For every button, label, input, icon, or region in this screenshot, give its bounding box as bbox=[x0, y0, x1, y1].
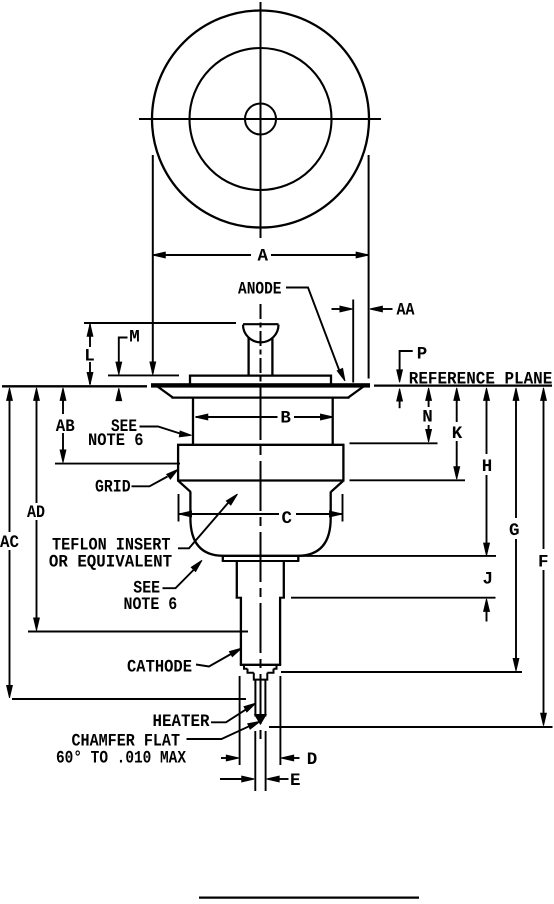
extension line at heater tip (F) bbox=[269, 726, 553, 728]
svg-text:D: D bbox=[307, 750, 318, 770]
top view outer flange circle bbox=[152, 11, 369, 228]
wide cylinder bottom shoulder right bbox=[279, 597, 285, 599]
dimension D left arrow bbox=[221, 757, 228, 759]
heater chamfer tip bbox=[255, 715, 267, 725]
footer base line bbox=[199, 896, 419, 898]
dimension G upper arrow bbox=[513, 388, 519, 401]
dimension C extension line left bbox=[178, 494, 180, 522]
svg-text:K: K bbox=[452, 424, 463, 444]
svg-text:NOTE 6: NOTE 6 bbox=[88, 431, 144, 451]
cathode leader bbox=[196, 654, 231, 667]
svg-text:HEATER: HEATER bbox=[153, 712, 210, 732]
svg-text:N: N bbox=[422, 408, 433, 428]
dimension K lower arrow bbox=[456, 441, 458, 468]
extension line at ledge (H/J upper) bbox=[299, 555, 496, 557]
svg-text:REFERENCE PLANE: REFERENCE PLANE bbox=[409, 369, 553, 389]
svg-text:CATHODE: CATHODE bbox=[127, 658, 192, 678]
dimension AC bbox=[7, 388, 13, 401]
ledge below dome right step bbox=[297, 556, 299, 561]
svg-text:H: H bbox=[482, 457, 493, 477]
wide cylinder bottom shoulder left bbox=[236, 597, 242, 599]
see note 6 upper leader bbox=[140, 427, 181, 434]
grid leader bbox=[132, 477, 168, 487]
dimension H lower arrow bbox=[486, 475, 488, 545]
reference plane line left segment bbox=[2, 385, 147, 387]
dimension P lower arrow bbox=[397, 389, 403, 402]
dimension P bracket bbox=[400, 351, 413, 370]
grid ring left wall bbox=[177, 445, 179, 481]
flange top bar bbox=[151, 383, 370, 387]
dimension AA left extension line bbox=[352, 300, 354, 383]
dimension D extension line right bbox=[279, 676, 281, 765]
svg-text:AC: AC bbox=[0, 533, 19, 553]
anode stem bbox=[247, 338, 249, 376]
side view centerline lower part bbox=[260, 390, 262, 740]
dimension E left arrow bbox=[220, 778, 243, 780]
top view vertical centerline bbox=[260, 2, 262, 238]
svg-text:M: M bbox=[129, 328, 140, 348]
heater wire left bbox=[254, 680, 256, 717]
grid ring left taper bbox=[179, 481, 191, 492]
dimension A right extension line bbox=[368, 155, 370, 379]
dimension D right arrow bbox=[281, 755, 294, 761]
reference plane line right segment bbox=[374, 384, 552, 386]
dimension A left extension line bbox=[152, 155, 154, 373]
cathode tip step 1 bbox=[243, 666, 278, 669]
AB extension line bbox=[55, 463, 180, 465]
top view center hole circle bbox=[245, 104, 276, 135]
dimension F lower arrow bbox=[543, 570, 545, 715]
svg-text:J: J bbox=[482, 569, 493, 589]
dimension E right arrow bbox=[267, 776, 280, 782]
grid ring bottom line bbox=[177, 479, 345, 481]
dimension N lower arrow bbox=[428, 425, 430, 430]
cathode tip step 3 bbox=[253, 673, 268, 680]
svg-text:NOTE 6: NOTE 6 bbox=[124, 595, 178, 615]
extension line at cathode shoulder (J lower) bbox=[291, 597, 496, 599]
ledge bottom line bbox=[222, 560, 299, 562]
dimension G lower arrow bbox=[515, 539, 517, 660]
svg-text:AD: AD bbox=[27, 503, 45, 523]
cathode right wall bbox=[279, 598, 281, 665]
wide cylinder left wall bbox=[236, 561, 238, 599]
dimension J lower arrow bbox=[484, 599, 490, 612]
dimension M lower arrow bbox=[116, 388, 122, 401]
see note 6 lower leader bbox=[163, 570, 194, 588]
svg-text:G: G bbox=[509, 521, 520, 541]
heater leader bbox=[211, 709, 246, 722]
dimension C bbox=[180, 513, 280, 515]
dimension AB bbox=[60, 388, 66, 401]
dimension N upper arrow bbox=[426, 388, 432, 401]
dimension AD bbox=[34, 388, 40, 401]
svg-text:E: E bbox=[290, 771, 301, 791]
dimension E extension line right bbox=[265, 731, 267, 791]
teflon leader bbox=[178, 503, 228, 548]
dimension A left extension arrow (down, at plate-top line) bbox=[150, 362, 156, 375]
lower body and teflon dome outline bbox=[190, 492, 330, 556]
dimension AA right arrow bbox=[370, 306, 383, 312]
svg-text:OR EQUIVALENT: OR EQUIVALENT bbox=[49, 552, 172, 572]
dimension L bbox=[89, 325, 91, 348]
svg-text:L: L bbox=[84, 346, 95, 366]
anode ceramic plate bbox=[190, 376, 331, 384]
svg-text:AA: AA bbox=[397, 301, 415, 321]
upper body right wall bbox=[332, 399, 334, 445]
dimension AA left arrow bbox=[332, 308, 342, 310]
upper body left wall bbox=[192, 399, 194, 445]
grid ring top line bbox=[177, 444, 345, 446]
side view centerline bbox=[260, 304, 262, 390]
top view horizontal centerline bbox=[139, 118, 381, 120]
svg-text:ANODE: ANODE bbox=[238, 279, 282, 299]
wide cylinder right wall bbox=[283, 561, 285, 599]
dimension H upper arrow bbox=[484, 388, 490, 401]
flange bottom line bbox=[172, 396, 350, 398]
extension line at grid ring bottom bbox=[350, 479, 466, 481]
svg-text:P: P bbox=[417, 345, 428, 365]
chamfer leader bbox=[187, 726, 250, 739]
AD extension line bbox=[28, 631, 248, 633]
svg-text:GRID: GRID bbox=[95, 477, 131, 497]
flange left chamfer bbox=[158, 387, 173, 398]
svg-text:AB: AB bbox=[56, 417, 75, 437]
svg-text:A: A bbox=[257, 246, 268, 266]
AC extension line bbox=[12, 698, 246, 700]
extension line at cathode tip (G) bbox=[281, 671, 522, 673]
dimension M bracket bbox=[119, 338, 128, 364]
heater wire right bbox=[264, 680, 266, 717]
dimension K upper arrow bbox=[454, 388, 460, 401]
dimension B bbox=[196, 416, 278, 418]
top view middle circle bbox=[190, 48, 332, 190]
svg-text:F: F bbox=[538, 553, 549, 573]
cathode tip step 2 bbox=[247, 669, 275, 673]
anode leader bbox=[286, 288, 341, 376]
extension line at grid ring top bbox=[350, 442, 438, 444]
dimension D extension line left bbox=[239, 676, 241, 765]
grid ring right taper bbox=[331, 481, 343, 492]
dimension L extension line bbox=[84, 322, 236, 324]
plate top extension line (M target) bbox=[108, 374, 179, 376]
dimension C extension line right bbox=[342, 494, 344, 522]
svg-text:B: B bbox=[280, 409, 291, 429]
svg-text:60° TO .010 MAX: 60° TO .010 MAX bbox=[56, 749, 186, 769]
svg-text:C: C bbox=[282, 509, 293, 529]
ledge below dome left step bbox=[222, 556, 224, 561]
dimension E extension line left bbox=[254, 731, 256, 791]
flange right chamfer bbox=[349, 387, 364, 398]
cathode bottom line bbox=[240, 664, 281, 666]
grid ring right wall bbox=[342, 445, 344, 481]
cathode left wall bbox=[240, 598, 242, 665]
dimension F upper arrow bbox=[541, 388, 547, 401]
anode dome bbox=[243, 324, 279, 342]
dimension A line bbox=[154, 254, 251, 256]
